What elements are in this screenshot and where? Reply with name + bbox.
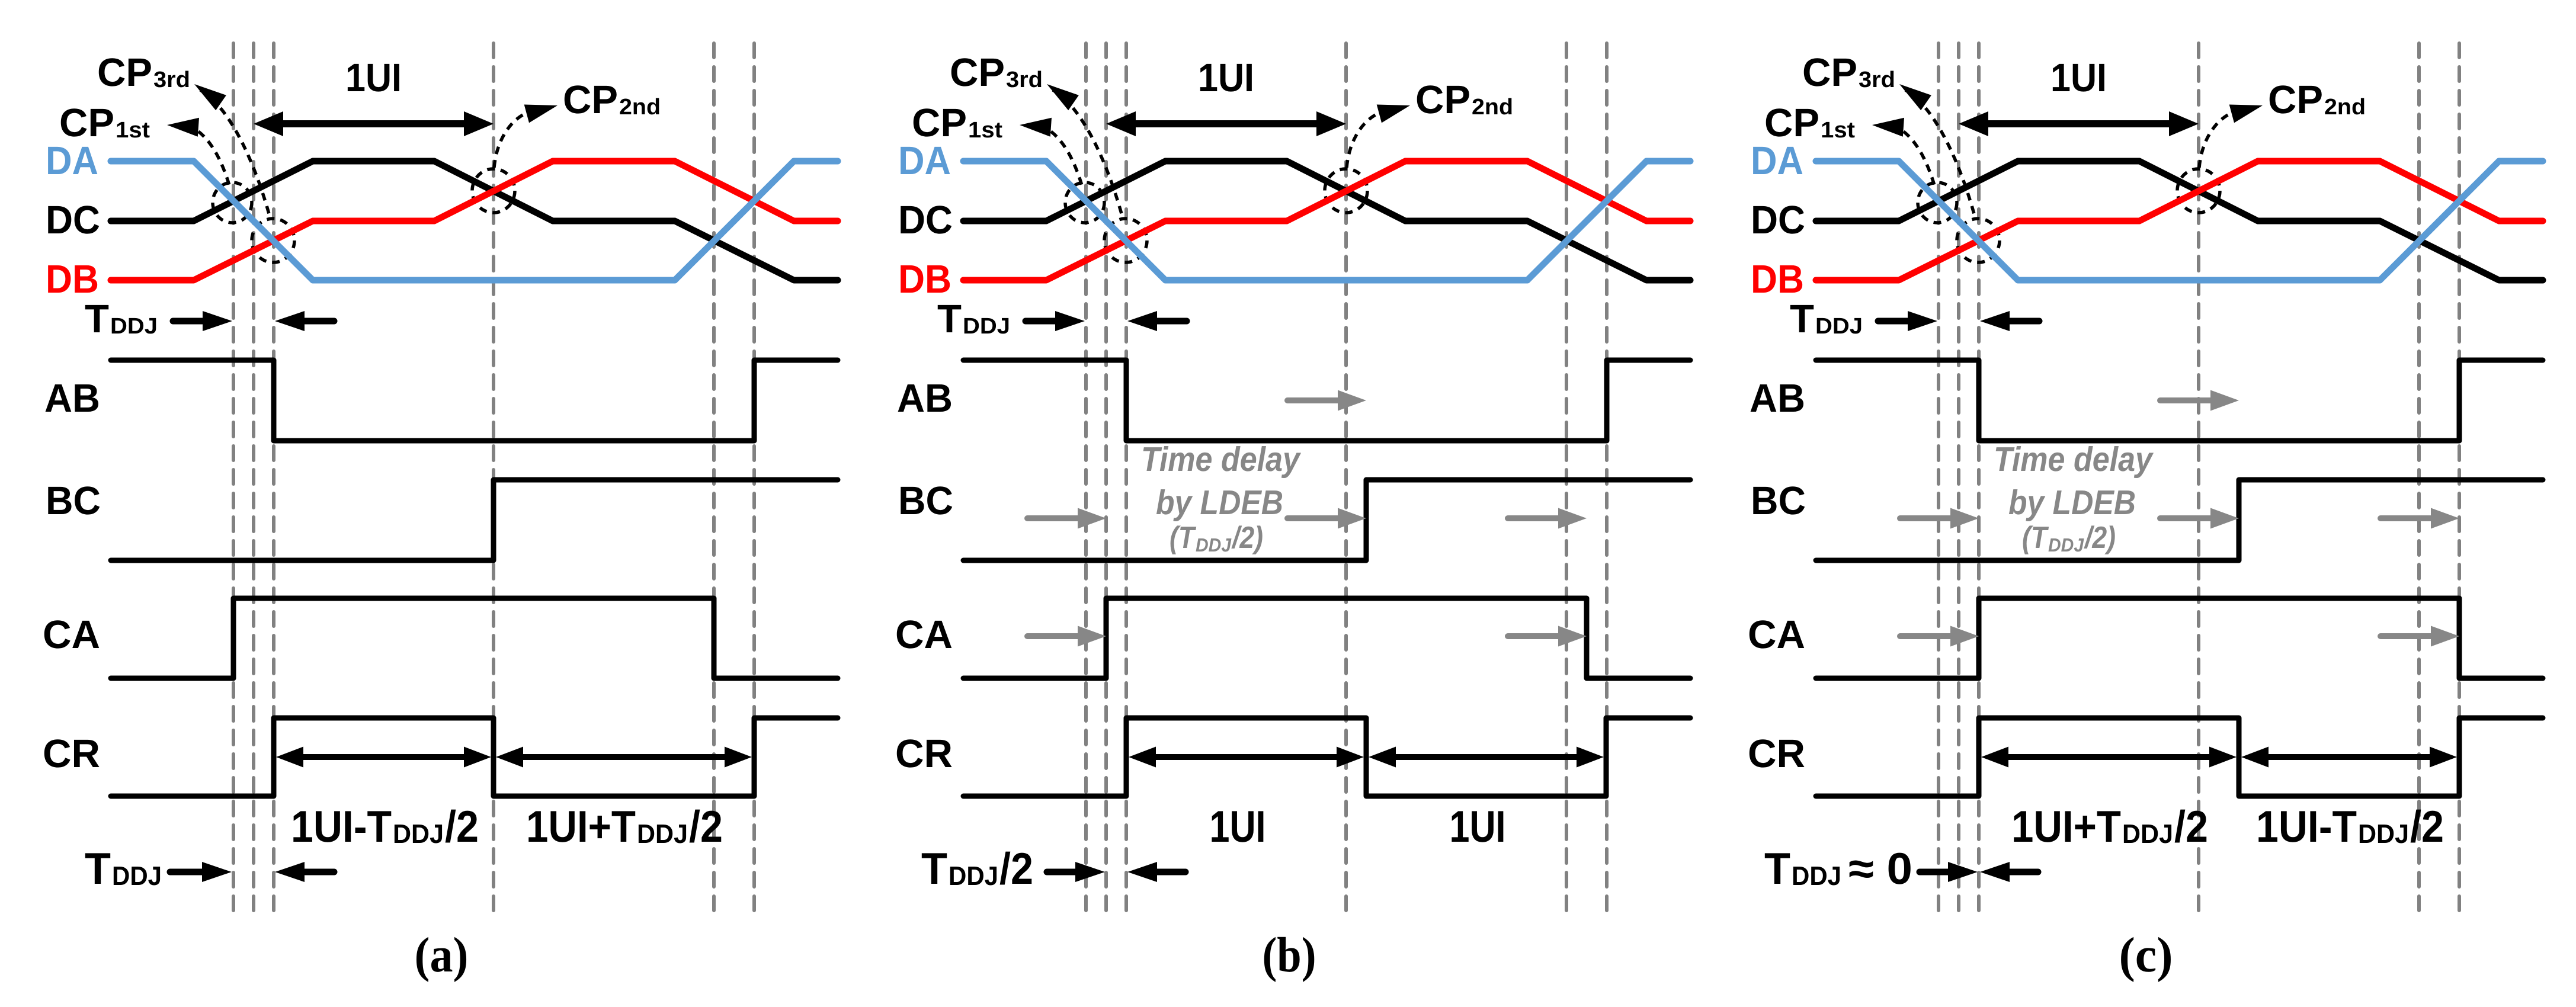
gray delay arrow CA row 2 [1508,626,1587,647]
svg-text:Time delay: Time delay [1141,440,1301,479]
svg-text:1UI: 1UI [1210,801,1266,851]
svg-text:DB: DB [46,257,99,302]
svg-text:DDJ: DDJ [2358,819,2409,849]
gray delay arrow BC row 3 [1508,508,1587,529]
arrow CR period 2 [1369,747,1604,768]
gridline dashed data mid crossing x=428 [1957,43,1960,915]
waveform CR (recovered clock) [963,718,1690,796]
waveform BC (comparator output) [1816,480,2543,560]
svg-text:DDJ: DDJ [110,314,158,339]
svg-text:T: T [85,297,109,341]
arrows TDDJ converge (bottom) [170,862,334,882]
svg-text:1UI: 1UI [2050,56,2107,100]
gray note: Time delay by LDEB (TDDJ/2) [1994,440,2154,556]
svg-text:CA: CA [43,612,100,657]
svg-text:/2: /2 [999,844,1033,893]
svg-text:CP: CP [563,78,618,122]
gridline dashed third transition upper crossing x=1273 [2458,43,2461,915]
arrows TDDJ converge (top) [173,311,334,331]
svg-text:T: T [921,844,947,893]
gridline dashed CP1st crossing x=394 [1084,43,1088,915]
circle CP3rd crossing [1104,219,1147,262]
gray delay arrow BC row 3 [2380,508,2459,529]
svg-text:/2: /2 [2410,801,2444,851]
arrow 1UI span (top) [1959,111,2199,136]
waveform BC (comparator output) [111,480,838,560]
svg-text:DC: DC [1751,198,1805,242]
waveform DB (red data) [1816,161,2543,280]
svg-text:T: T [1764,844,1790,893]
gray delay arrow BC row 1 [1900,508,1979,529]
pointer curve CP1st [1020,118,1082,187]
svg-text:CP: CP [1802,50,1857,95]
gridline dashed data mid crossing x=428 [252,43,255,915]
svg-text:(T: (T [1170,521,1197,555]
waveform DB (red data) [111,161,838,280]
label TDDJ ≈ 0 (bottom) [1764,844,1912,893]
circle CP1st crossing [1918,182,1957,223]
svg-text:CP: CP [912,101,967,145]
arrows TDDJ converge (top) [1878,311,2039,331]
gridline dashed CP3rd crossing x=462 [1124,43,1128,915]
gray delay arrow CA row 1 [1027,626,1106,647]
svg-text:1st: 1st [1821,118,1855,143]
waveform CR (recovered clock) [1816,718,2543,796]
svg-text:CP: CP [1764,101,1819,145]
circle CP1st crossing [1065,182,1104,223]
svg-text:1UI-T: 1UI-T [291,801,392,851]
svg-text:DDJ: DDJ [949,861,998,891]
circle CP3rd crossing [252,219,294,262]
arrow 1UI span (top) [254,111,494,136]
svg-text:(c): (c) [2119,928,2173,983]
waveform CA (comparator output) [963,598,1690,678]
svg-text:CP: CP [950,50,1005,95]
pointer curve CP3rd [1899,84,1975,218]
svg-text:1st: 1st [116,118,150,143]
waveform DC (black data) [1816,161,2543,280]
svg-text:BC: BC [46,479,101,523]
waveform DA (blue data) [111,161,838,280]
svg-text:Time delay: Time delay [1994,440,2154,479]
svg-text:CP: CP [2268,78,2323,122]
svg-text:DB: DB [898,257,951,302]
gridline dashed third transition upper crossing x=1273 [752,43,756,915]
label CP1st [912,101,1002,145]
gray delay arrow CA row 2 [2380,626,2459,647]
svg-text:DC: DC [898,198,953,242]
gridline dashed third transition upper crossing x=1273 [1605,43,1609,915]
waveform DB (red data) [963,161,1690,280]
svg-text:T: T [1790,297,1814,341]
svg-text:AB: AB [897,376,953,421]
svg-text:DDJ: DDJ [1792,861,1841,891]
arrow CR period 1 [1129,747,1364,768]
svg-text:(T: (T [2022,521,2049,555]
panel (c) [1748,43,2543,983]
svg-text:T: T [937,297,962,341]
svg-text:2nd: 2nd [1472,95,1513,120]
arrow 1UI span (top) [1106,111,1346,136]
svg-text:1UI+T: 1UI+T [526,801,636,851]
label CP3rd [1802,50,1895,95]
label CP2nd [563,78,661,122]
waveform AB (comparator output) [963,360,1690,441]
svg-text:DDJ: DDJ [2122,819,2173,849]
svg-text:DC: DC [46,198,100,242]
gridline dashed CP2nd crossing x=833 [1344,43,1348,915]
svg-text:/2: /2 [689,801,723,851]
label 1UI-TDDJ/2 [2256,801,2444,851]
pointer curve CP1st [1872,118,1935,187]
waveform CA (comparator output) [111,598,838,678]
svg-text:DA: DA [1751,139,1803,183]
svg-text:CP: CP [59,101,114,145]
svg-text:BC: BC [1751,479,1806,523]
gridline dashed CP3rd crossing x=462 [272,43,275,915]
arrows TDDJ converge (bottom) [1920,862,2038,882]
svg-text:by LDEB: by LDEB [2008,483,2136,522]
svg-text:1UI: 1UI [1450,801,1506,851]
circle CP2nd crossing [1325,169,1367,213]
waveform CA (comparator output) [1816,598,2543,678]
arrow CR period 1 [276,747,491,768]
svg-text:2nd: 2nd [619,95,661,120]
pointer curve CP2nd [1347,105,1410,168]
label TDDJ (top) [937,297,1010,341]
svg-text:2nd: 2nd [2324,95,2366,120]
svg-text:DDJ: DDJ [1815,314,1863,339]
svg-text:(b): (b) [1263,928,1316,983]
label TDDJ (top) [1790,297,1863,341]
label 1UI+TDDJ/2 [2011,801,2208,851]
gray delay arrow BC row 2 [1287,508,1366,529]
svg-text:3rd: 3rd [1859,68,1895,92]
waveform BC (comparator output) [963,480,1690,560]
arrow CR period 2 [2241,747,2457,768]
svg-text:CA: CA [895,612,953,657]
gray delay arrow BC row 2 [2160,508,2239,529]
svg-text:CP: CP [1415,78,1470,122]
svg-text:CR: CR [895,732,953,776]
label TDDJ (top) [85,297,158,341]
gray delay arrow BC row 1 [1027,508,1106,529]
gridline dashed CP2nd crossing x=833 [2197,43,2200,915]
label CP3rd [950,50,1043,95]
gray delay arrow CA row 1 [1900,626,1979,647]
circle CP2nd crossing [472,169,515,213]
svg-text:DDJ: DDJ [2048,534,2084,556]
svg-text:CR: CR [1748,732,1805,776]
svg-text:DDJ: DDJ [393,819,444,849]
waveform AB (comparator output) [1816,360,2543,441]
gridline dashed CP1st crossing x=394 [232,43,235,915]
label 1UI-TDDJ/2 [291,801,479,851]
label CP3rd [97,50,190,95]
gridline dashed data mid crossing x=428 [1104,43,1108,915]
svg-text:1UI: 1UI [345,56,402,100]
gridline dashed third transition lower crossing x=1205 [1565,43,1568,915]
svg-text:AB: AB [44,376,100,421]
svg-text:DDJ: DDJ [963,314,1010,339]
waveform DA (blue data) [963,161,1690,280]
gridline dashed CP2nd crossing x=833 [492,43,495,915]
svg-text:1UI: 1UI [1198,56,1254,100]
panel (b) [895,43,1690,983]
svg-text:3rd: 3rd [153,68,190,92]
gridline dashed third transition lower crossing x=1205 [712,43,716,915]
svg-text:DA: DA [898,139,951,183]
label CP1st [59,101,150,145]
svg-text:/2): /2) [1231,521,1263,555]
svg-text:T: T [85,844,111,893]
waveform DC (black data) [111,161,838,280]
svg-text:3rd: 3rd [1006,68,1043,92]
svg-text:DDJ: DDJ [637,819,688,849]
waveform AB (comparator output) [111,360,838,441]
svg-text:≈ 0: ≈ 0 [1848,844,1912,893]
svg-text:DB: DB [1751,257,1804,302]
svg-text:CP: CP [97,50,152,95]
arrows TDDJ converge (top) [1026,311,1187,331]
circle CP3rd crossing [1957,219,2000,262]
waveform CR (recovered clock) [111,718,838,796]
svg-text:DA: DA [46,139,98,183]
gray delay arrow AB row [1287,390,1366,411]
arrow CR period 2 [496,747,752,768]
label TDDJ (bottom) [85,844,162,893]
svg-text:(a): (a) [415,928,469,983]
gray note: Time delay by LDEB (TDDJ/2) [1141,440,1301,556]
label CP1st [1764,101,1855,145]
panel (a) [43,43,838,983]
pointer curve CP1st [167,118,230,187]
svg-text:DDJ: DDJ [112,861,162,891]
svg-text:/2: /2 [2174,801,2208,851]
svg-text:/2): /2) [2084,521,2116,555]
gray delay arrow AB row [2160,390,2239,411]
svg-text:CR: CR [43,732,100,776]
label CP2nd [2268,78,2366,122]
circle CP1st crossing [213,182,252,223]
svg-text:DDJ: DDJ [1196,534,1232,556]
pointer curve CP2nd [2199,105,2263,168]
pointer curve CP2nd [494,105,558,168]
svg-text:CA: CA [1748,612,1805,657]
label CP2nd [1415,78,1513,122]
pointer curve CP3rd [1047,84,1123,218]
label 1UI+TDDJ/2 [526,801,723,851]
arrow CR period 1 [1981,747,2237,768]
svg-text:/2: /2 [445,801,479,851]
circle CP2nd crossing [2177,169,2220,213]
waveform DC (black data) [963,161,1690,280]
label TDDJ/2 (bottom) [921,844,1033,893]
svg-text:AB: AB [1750,376,1805,421]
gridline dashed CP3rd crossing x=462 [1977,43,1981,915]
waveform DA (blue data) [1816,161,2543,280]
svg-text:1UI+T: 1UI+T [2011,801,2121,851]
svg-text:1st: 1st [968,118,1002,143]
svg-text:1UI-T: 1UI-T [2256,801,2357,851]
gridline dashed CP1st crossing x=394 [1937,43,1940,915]
svg-text:by LDEB: by LDEB [1156,483,1283,522]
pointer curve CP3rd [194,84,270,218]
gridline dashed third transition lower crossing x=1205 [2417,43,2421,915]
arrows TDDJ converge (bottom) [1047,862,1186,882]
svg-text:BC: BC [898,479,953,523]
